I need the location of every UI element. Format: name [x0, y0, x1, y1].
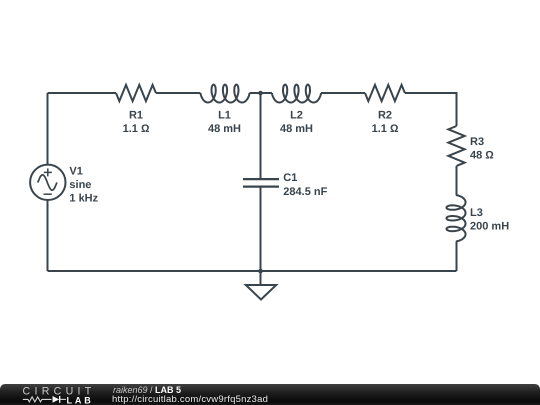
wire top-left horizontal: [48, 92, 117, 94]
footer credit text: [113, 385, 181, 396]
wire C1 to bottom node: [260, 187, 262, 271]
voltage source V1: [30, 165, 65, 200]
svg-text:LAB: LAB: [67, 395, 94, 405]
resistor R2: [365, 85, 405, 101]
svg-text:48 mH: 48 mH: [208, 123, 241, 135]
bottom node junction dot: [258, 269, 263, 274]
label V1: [69, 165, 98, 204]
capacitor C1: [243, 179, 279, 187]
CircuitLab logo: [0, 382, 110, 405]
wire bottom horizontal: [48, 270, 457, 272]
wire L1 to node A: [250, 92, 273, 94]
svg-text:L1: L1: [218, 110, 231, 122]
svg-text:V1: V1: [69, 165, 82, 177]
ground: [246, 285, 276, 300]
ground stub wire: [260, 271, 262, 285]
label L2: [280, 110, 313, 136]
wire L2 to R2: [321, 92, 365, 94]
inductor L2: [272, 85, 321, 103]
svg-text:1.1 Ω: 1.1 Ω: [123, 123, 150, 135]
svg-text:48 Ω: 48 Ω: [470, 150, 494, 162]
label C1: [283, 172, 327, 198]
wire left vertical top: [47, 93, 49, 165]
footer url: [112, 395, 268, 405]
wire R3 to L3: [456, 166, 458, 195]
wire R2 to top-right corner: [405, 93, 457, 126]
svg-text:R3: R3: [470, 136, 484, 148]
svg-text:L2: L2: [290, 110, 303, 122]
label R2: [372, 110, 399, 136]
footer bar: [0, 384, 540, 405]
svg-text:C1: C1: [283, 172, 297, 184]
label L1: [208, 110, 241, 136]
svg-text:sine: sine: [69, 179, 91, 191]
resistor R1: [116, 85, 156, 101]
label L3: [470, 207, 509, 233]
svg-text:1.1 Ω: 1.1 Ω: [372, 123, 399, 135]
resistor R3: [448, 126, 464, 166]
svg-text:200 mH: 200 mH: [470, 221, 509, 233]
inductor L3: [447, 195, 466, 242]
inductor L1: [201, 85, 250, 103]
node A junction dot: [258, 91, 263, 96]
svg-text:48 mH: 48 mH: [280, 123, 313, 135]
svg-text:R2: R2: [378, 110, 392, 122]
svg-text:1 kHz: 1 kHz: [69, 193, 98, 205]
wire V1 to bottom-left corner: [47, 200, 49, 271]
label R3: [470, 136, 494, 162]
svg-text:L3: L3: [470, 207, 483, 219]
label R1: [123, 110, 150, 136]
svg-text:R1: R1: [129, 110, 143, 122]
wire node A down to C1: [260, 93, 262, 179]
wire R1 to L1: [156, 92, 201, 94]
svg-text:284.5 nF: 284.5 nF: [283, 186, 327, 198]
wire L3 to bottom-right corner: [456, 242, 458, 272]
